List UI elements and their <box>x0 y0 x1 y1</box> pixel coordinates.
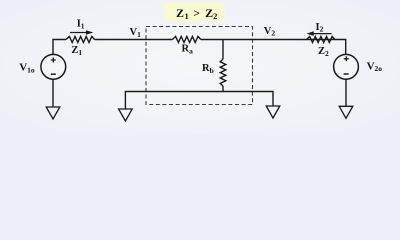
wire Rb bottom lead <box>222 86 224 92</box>
current arrow I2 (pointing left) <box>307 31 332 36</box>
dashed two-port box <box>146 27 253 105</box>
voltage source V2o <box>334 54 359 79</box>
svg-text:Z1 > Z2: Z1 > Z2 <box>176 6 218 21</box>
resistor Rb (vertical) <box>220 59 226 86</box>
wire Ra to corner (through node V2) <box>201 40 346 55</box>
voltage source V1o <box>41 54 66 79</box>
wire top-left: V1o top to Z1 <box>53 40 66 55</box>
resistor Z1 <box>66 36 95 42</box>
ground (under V1o) <box>46 107 60 119</box>
wire Rb top lead <box>222 40 224 60</box>
label Z1 > Z2 (yellow highlight) <box>165 3 224 22</box>
ground (bottom left) <box>119 109 133 121</box>
resistor Ra <box>172 36 200 42</box>
ground (under V2o) <box>339 106 353 118</box>
wire V1o bottom to ground <box>52 79 54 107</box>
current arrow I1 <box>70 30 93 35</box>
wire V2o bottom to ground <box>345 79 347 106</box>
bottom wire with left drop <box>125 92 273 110</box>
wire Z1 to Ra <box>95 39 173 41</box>
resistor Z2 <box>307 36 335 42</box>
ground (bottom right) <box>266 106 280 118</box>
